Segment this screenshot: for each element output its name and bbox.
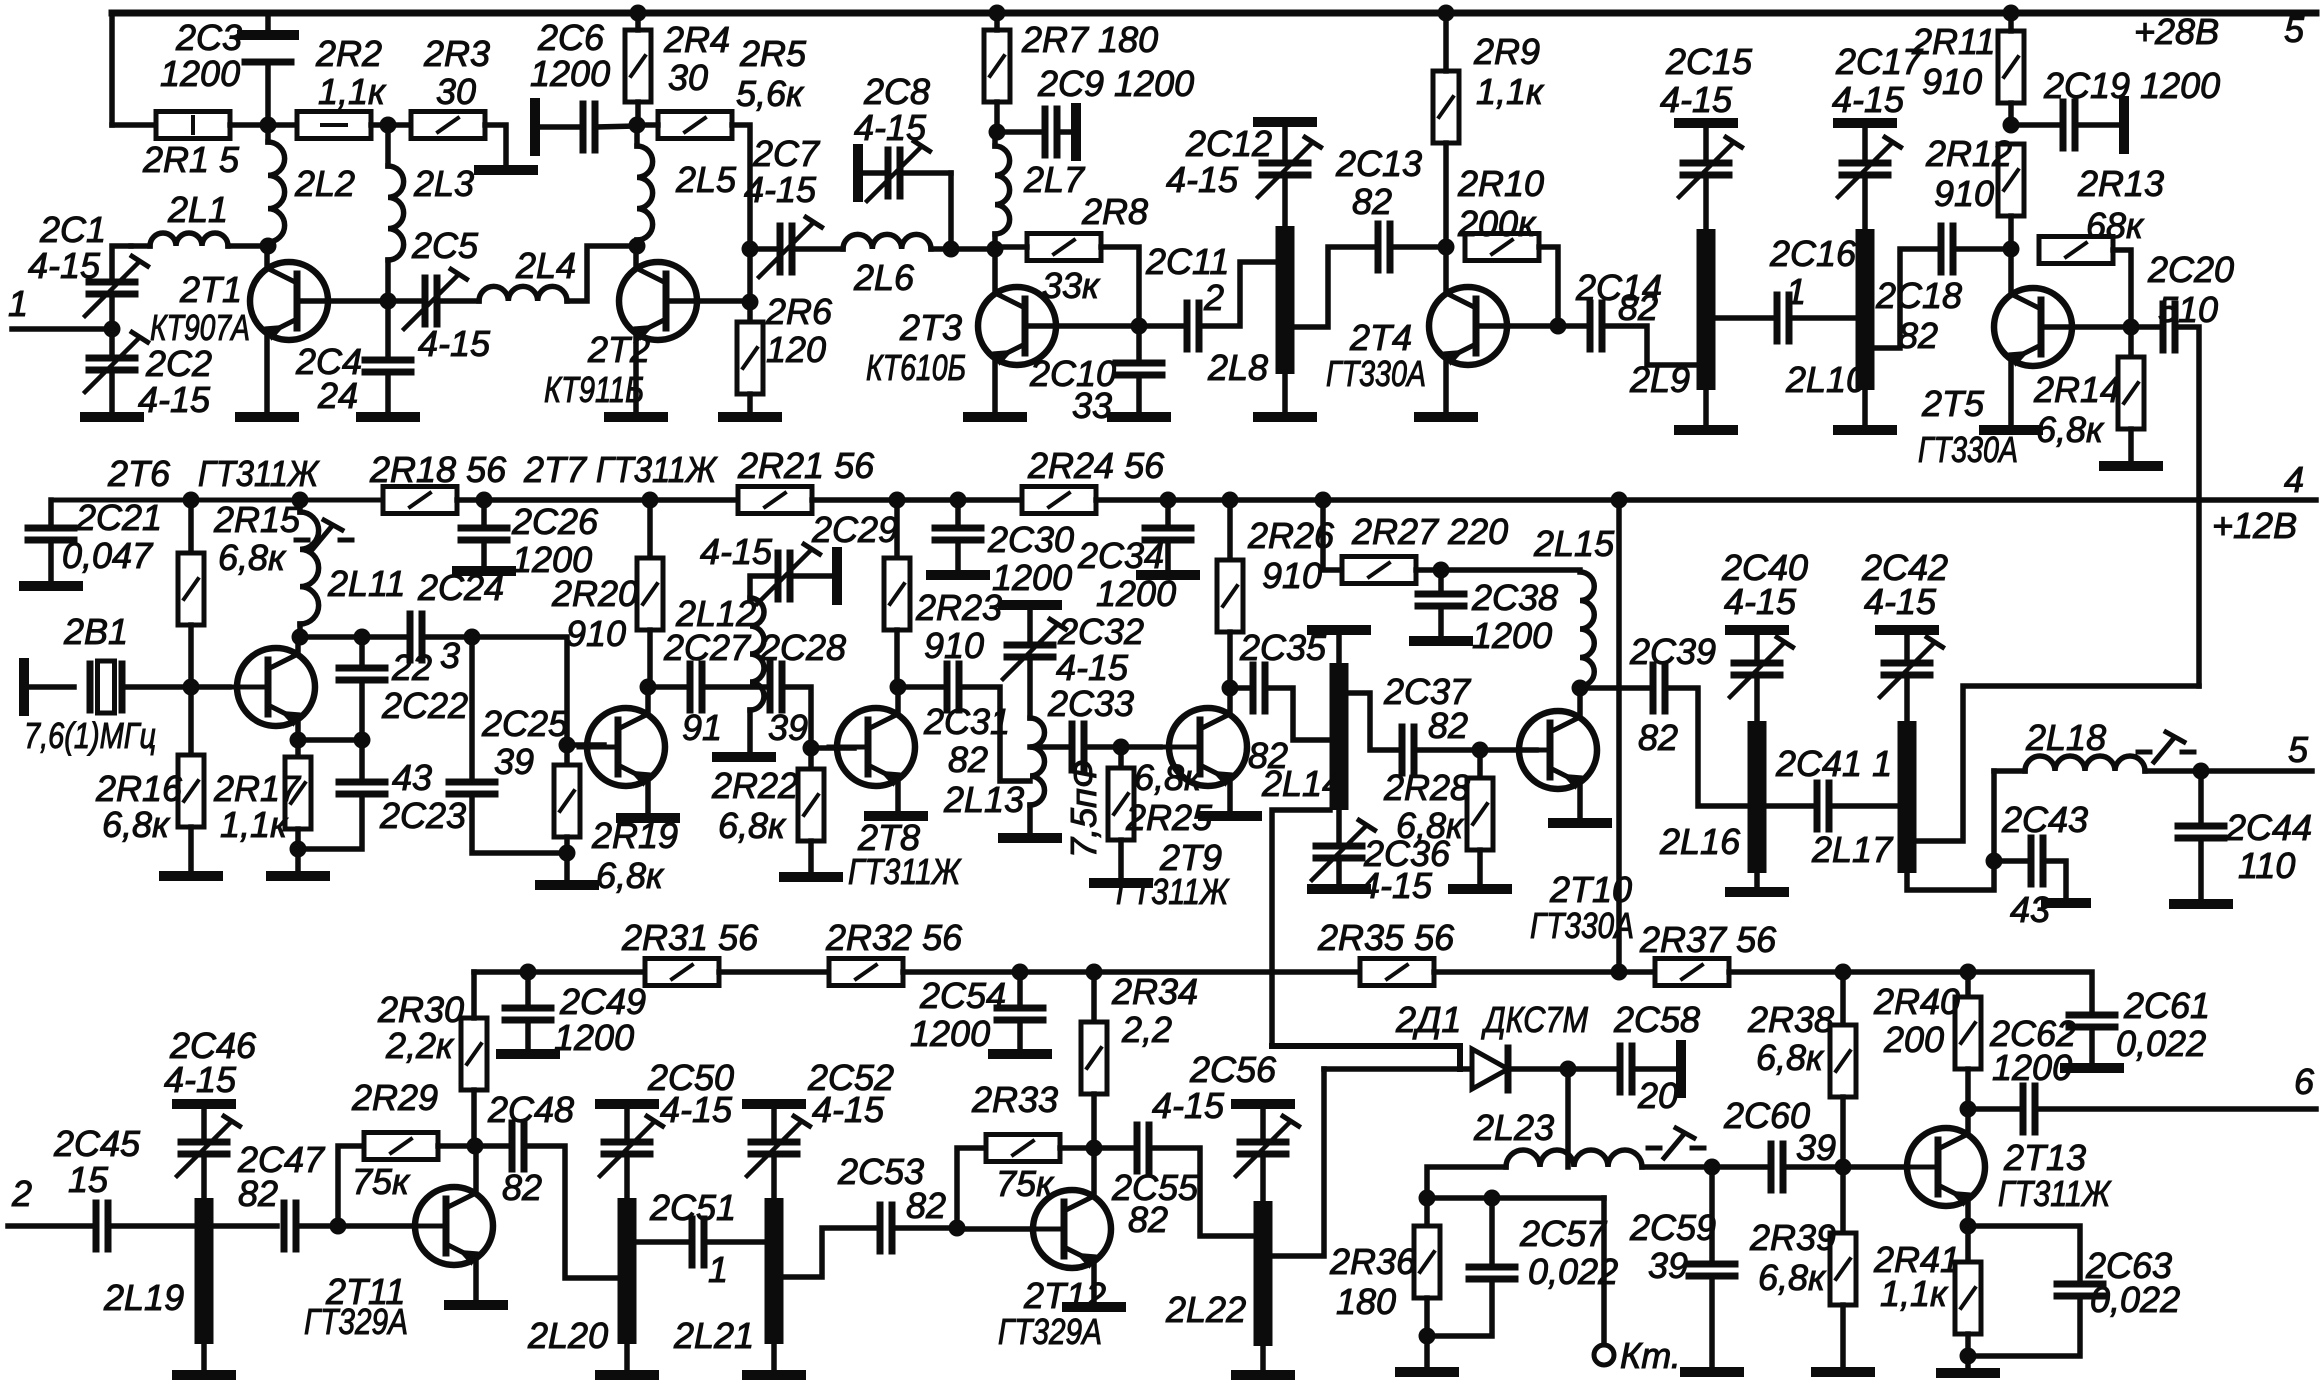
label 2C39 bbox=[1629, 631, 1716, 672]
svg-text:ГТ311Ж: ГТ311Ж bbox=[198, 453, 320, 494]
wire bbox=[1427, 1195, 1604, 1201]
wire bbox=[1965, 972, 1971, 997]
junction bbox=[742, 294, 759, 311]
svg-text:2C26: 2C26 bbox=[511, 501, 599, 542]
terminal bbox=[832, 552, 842, 600]
wire bbox=[862, 170, 888, 176]
wire 2L8 tap to 2C13 bbox=[1294, 247, 1372, 327]
value label 2C40 4-15 bbox=[1724, 581, 1797, 622]
wire bbox=[1282, 127, 1288, 157]
svg-text:39: 39 bbox=[1648, 1245, 1688, 1286]
value label 2C18 82 bbox=[1898, 315, 1938, 356]
inductor 2L3 bbox=[388, 166, 404, 260]
value label 2C4 24 bbox=[317, 375, 358, 416]
wire bbox=[469, 637, 475, 779]
label 2C50 bbox=[647, 1057, 734, 1098]
wire 2T12 emitter bbox=[1091, 1262, 1097, 1302]
wire 2L14 to mixer bbox=[1272, 810, 1330, 1046]
ground bbox=[1312, 884, 1366, 894]
junction bbox=[1560, 1061, 1577, 1078]
label 2C22 bbox=[381, 685, 468, 726]
junction bbox=[1086, 1140, 1103, 1157]
svg-text:2C43: 2C43 bbox=[2001, 799, 2088, 840]
wire bbox=[438, 1143, 475, 1149]
value label 2C59 39 bbox=[1648, 1245, 1688, 1286]
wire 2T7 base bbox=[567, 742, 604, 748]
svg-text:200к: 200к bbox=[1457, 203, 1537, 244]
wire bbox=[1165, 540, 1171, 570]
wire bbox=[362, 634, 404, 640]
transistor 2T7 bbox=[579, 708, 665, 787]
wire 2T2 collector bbox=[633, 246, 639, 268]
wire bbox=[1709, 1276, 1715, 1367]
wire +28V rail bbox=[112, 10, 2316, 17]
svg-text:2L13: 2L13 bbox=[943, 779, 1024, 820]
inductor 2L8 bbox=[1276, 226, 1295, 374]
wire bbox=[1336, 635, 1342, 663]
ground bbox=[1141, 570, 1195, 580]
trimmer capacitor 2C7 bbox=[759, 217, 822, 277]
wire 2T2 emitter bbox=[633, 334, 639, 412]
svg-text:4-15: 4-15 bbox=[1724, 581, 1797, 622]
terminal bbox=[19, 663, 29, 711]
resistor 2R22 bbox=[798, 769, 824, 841]
svg-text:2L11: 2L11 bbox=[327, 563, 405, 604]
svg-text:2C18: 2C18 bbox=[1875, 275, 1962, 316]
crystal 2B1 bbox=[90, 661, 122, 713]
svg-text:75к: 75к bbox=[352, 1161, 411, 1202]
svg-text:1200: 1200 bbox=[910, 1013, 990, 1054]
resistor 2R4 bbox=[625, 30, 651, 102]
trimmer capacitor 2C46 bbox=[177, 1116, 240, 1176]
label 2C60 bbox=[1723, 1095, 1810, 1136]
ground bbox=[1941, 1368, 1995, 1378]
svg-text:6,8к: 6,8к bbox=[102, 804, 171, 845]
wire 2C63 top bbox=[1968, 1226, 2080, 1281]
junction bbox=[1611, 964, 1628, 981]
capacitor 2C55 bbox=[1137, 1125, 1149, 1171]
ground bbox=[449, 1300, 503, 1310]
label 2T2 bbox=[587, 329, 650, 370]
svg-text:82: 82 bbox=[948, 739, 988, 780]
ground bbox=[1679, 425, 1733, 435]
junction bbox=[642, 492, 659, 509]
wire bbox=[1904, 635, 1910, 657]
ground bbox=[1553, 818, 1607, 828]
label 2C63 bbox=[2085, 1245, 2172, 1286]
ground bbox=[1067, 1302, 1121, 1312]
label 2C31 bbox=[923, 701, 1010, 742]
wire 2T8 collector bbox=[895, 687, 901, 714]
svg-text:2L21: 2L21 bbox=[673, 1315, 754, 1356]
svg-text:2C57: 2C57 bbox=[1519, 1213, 1608, 1254]
wire bbox=[1754, 635, 1760, 657]
svg-text:0,022: 0,022 bbox=[2116, 1023, 2206, 1064]
svg-text:КТ907А: КТ907А bbox=[150, 307, 250, 348]
value label 2C15 4-15 bbox=[1660, 79, 1733, 120]
wire bbox=[201, 1109, 207, 1137]
wire bbox=[108, 1223, 195, 1229]
wire bbox=[109, 370, 115, 412]
wire bbox=[1094, 1145, 1131, 1151]
svg-text:2C56: 2C56 bbox=[1189, 1049, 1277, 1090]
wire diode anode bbox=[1324, 1066, 1472, 1072]
wire bbox=[228, 243, 268, 249]
svg-text:2C16: 2C16 bbox=[1769, 233, 1857, 274]
label +12V bbox=[2212, 505, 2297, 546]
svg-text:4-15: 4-15 bbox=[1152, 1085, 1225, 1126]
label 2R34 bbox=[1111, 971, 1198, 1012]
label net 5 out bbox=[2288, 729, 2309, 770]
junction bbox=[629, 117, 646, 134]
svg-text:ГТ329А: ГТ329А bbox=[304, 1301, 408, 1342]
svg-text:4-15: 4-15 bbox=[812, 1089, 885, 1130]
svg-text:4-15: 4-15 bbox=[138, 379, 211, 420]
label 2C23 bbox=[379, 795, 466, 836]
svg-text:6,8к: 6,8к bbox=[1756, 1037, 1825, 1078]
wire bbox=[124, 684, 191, 690]
capacitor 2C61 bbox=[2069, 1015, 2115, 1027]
junction bbox=[1433, 562, 1450, 579]
ground bbox=[1414, 636, 1468, 646]
type label 2T1 KT907A bbox=[150, 307, 250, 348]
transistor 2T5 bbox=[1994, 288, 2080, 367]
svg-text:1: 1 bbox=[8, 283, 28, 324]
wire 2T9 emitter bbox=[1227, 780, 1233, 812]
wire bbox=[1443, 13, 1449, 71]
inductor 2L22 bbox=[1254, 1201, 1273, 1346]
label 2C28 bbox=[759, 627, 846, 668]
ground bbox=[1816, 1367, 1870, 1377]
ground bbox=[1203, 811, 1257, 821]
svg-text:2L4: 2L4 bbox=[515, 245, 576, 286]
junction bbox=[989, 5, 1006, 22]
junction bbox=[380, 293, 397, 310]
wire bbox=[992, 132, 998, 146]
wire 2L4 to 2T2 collector bbox=[567, 246, 637, 301]
label 2R19 bbox=[591, 815, 678, 856]
junction bbox=[1611, 492, 1628, 509]
label 2R12 bbox=[1925, 133, 2012, 174]
capacitor 2C43 bbox=[2031, 838, 2043, 884]
value label 2C5 4-15 bbox=[418, 323, 491, 364]
wire bbox=[1862, 128, 1868, 157]
label 2T3 bbox=[899, 307, 962, 348]
resistor 2R24 bbox=[1022, 487, 1096, 514]
wire bbox=[747, 394, 753, 412]
svg-text:43: 43 bbox=[392, 757, 432, 798]
svg-text:82: 82 bbox=[1898, 315, 1938, 356]
label 2L6 bbox=[853, 257, 915, 298]
svg-text:2R35 56: 2R35 56 bbox=[1317, 917, 1455, 958]
transistor 2T13 bbox=[1899, 1128, 1985, 1207]
capacitor 2C49 bbox=[505, 1008, 551, 1020]
junction bbox=[803, 740, 820, 757]
junction bbox=[290, 732, 307, 749]
svg-text:5,6к: 5,6к bbox=[736, 73, 805, 114]
capacitor 2C31 bbox=[947, 664, 959, 710]
inductor 2L14 bbox=[1330, 663, 1349, 810]
junction bbox=[260, 238, 277, 255]
wire bbox=[1783, 1164, 1843, 1170]
junction bbox=[1086, 964, 1103, 981]
ground bbox=[1685, 1367, 1739, 1377]
label 2C55 bbox=[1111, 1167, 1199, 1208]
wire 2C39 to 2L16 bbox=[1665, 688, 1749, 806]
svg-text:120: 120 bbox=[766, 329, 826, 370]
svg-text:30: 30 bbox=[436, 71, 476, 112]
svg-text:4-15: 4-15 bbox=[1056, 647, 1129, 688]
wire 2T12 collector bbox=[1091, 1148, 1097, 1196]
label 2R7 180 bbox=[1021, 19, 1158, 60]
label 2L23 bbox=[1473, 1107, 1554, 1148]
transistor 2T11 bbox=[407, 1187, 493, 1266]
ground bbox=[2046, 898, 2086, 908]
label 2C58 bbox=[1613, 999, 1700, 1040]
value label 2C46 4-15 bbox=[164, 1059, 237, 1100]
trimmer capacitor 2C1 bbox=[85, 256, 148, 316]
label 2C36 bbox=[1363, 833, 1451, 874]
svg-text:4-15: 4-15 bbox=[418, 323, 491, 364]
capacitor 2C11 bbox=[1187, 303, 1199, 349]
junction bbox=[629, 238, 646, 255]
wire bbox=[385, 372, 391, 412]
svg-text:2L7: 2L7 bbox=[1023, 159, 1086, 200]
value label 2C7 4-15 bbox=[744, 169, 817, 210]
svg-text:2L16: 2L16 bbox=[1659, 821, 1741, 862]
value label 2C43 43 bbox=[2010, 889, 2050, 930]
capacitor 2C14 bbox=[1590, 303, 1602, 349]
inductor 2L23 bbox=[1506, 1150, 1642, 1167]
wire bbox=[298, 737, 362, 743]
label 2L8 bbox=[1207, 347, 1268, 388]
label 2L19 bbox=[103, 1277, 184, 1318]
value label 2C47 82 bbox=[238, 1173, 278, 1214]
wire 2T7 collector bbox=[645, 687, 651, 714]
label 2R1 5 bbox=[142, 139, 240, 180]
capacitor 2C39 bbox=[1653, 665, 1665, 711]
wire bbox=[1565, 1069, 1571, 1167]
wire bbox=[2043, 861, 2066, 898]
terminal bbox=[177, 1099, 231, 1109]
ground bbox=[164, 871, 218, 881]
wire bbox=[898, 684, 941, 690]
svg-text:2R34: 2R34 bbox=[1111, 971, 1198, 1012]
wire bbox=[1632, 1066, 1677, 1072]
svg-text:2R24 56: 2R24 56 bbox=[1027, 445, 1165, 486]
svg-text:2R1 5: 2R1 5 bbox=[142, 139, 240, 180]
junction bbox=[476, 492, 493, 509]
wire bbox=[481, 500, 487, 525]
wire bbox=[894, 500, 900, 558]
capacitor 2C28 bbox=[770, 664, 782, 710]
wire bbox=[297, 500, 303, 512]
wire 2R8 to base node bbox=[1101, 247, 1139, 320]
junction bbox=[742, 241, 759, 258]
label net 5 bbox=[2284, 9, 2305, 50]
resistor 2R26 bbox=[1217, 560, 1243, 632]
capacitor 2C19 bbox=[2063, 102, 2075, 148]
wire bbox=[948, 173, 954, 249]
capacitor 2C23 bbox=[339, 782, 385, 794]
svg-text:2,2к: 2,2к bbox=[385, 1025, 455, 1066]
svg-text:2L19: 2L19 bbox=[103, 1277, 184, 1318]
wire 2C3 top bbox=[265, 13, 271, 31]
label 2T4 bbox=[1349, 317, 1412, 358]
label 2C19 1200 bbox=[2043, 65, 2220, 106]
terminal bbox=[853, 149, 863, 197]
svg-text:1200: 1200 bbox=[554, 1017, 634, 1058]
wire 2L22 tap to diode bbox=[1272, 1069, 1324, 1256]
wire bbox=[1965, 1226, 1971, 1262]
wire 2T1 emitter bbox=[264, 334, 270, 412]
wire bbox=[1840, 1097, 1846, 1167]
svg-text:2T1: 2T1 bbox=[179, 269, 242, 310]
svg-text:2C59: 2C59 bbox=[1629, 1207, 1716, 1248]
value label 2C1 4-15 bbox=[28, 245, 101, 286]
label 2R37 56 bbox=[1639, 919, 1777, 960]
svg-text:ГТ311Ж: ГТ311Ж bbox=[1998, 1173, 2112, 1214]
junction bbox=[1131, 318, 1148, 335]
wire node A bbox=[112, 122, 156, 128]
wire bbox=[359, 680, 365, 740]
label 2L20 bbox=[527, 1315, 608, 1356]
wire 2T1 collector bbox=[264, 246, 270, 268]
wire bbox=[808, 748, 814, 769]
wire 2L9 tap bbox=[1715, 315, 1771, 321]
label 2R11 bbox=[1911, 21, 1995, 62]
svg-text:82: 82 bbox=[238, 1173, 278, 1214]
svg-text:2C61: 2C61 bbox=[2123, 985, 2210, 1026]
wire bbox=[201, 1154, 207, 1198]
resistor 2R38 bbox=[1830, 1025, 1856, 1097]
wire bbox=[265, 242, 271, 246]
svg-text:2C7: 2C7 bbox=[752, 133, 821, 174]
wire bbox=[1965, 1069, 1971, 1109]
terminal bbox=[1880, 625, 1934, 635]
wire bbox=[1091, 1094, 1097, 1148]
ground bbox=[717, 752, 771, 762]
inductor 2L19 bbox=[195, 1198, 214, 1344]
junction bbox=[630, 5, 647, 22]
svg-text:2L3: 2L3 bbox=[413, 163, 474, 204]
junction bbox=[890, 679, 907, 696]
transistor 2T8 bbox=[829, 708, 915, 787]
wire bbox=[385, 125, 391, 166]
resistor 2R36 bbox=[1414, 1226, 1440, 1298]
svg-text:0,047: 0,047 bbox=[62, 535, 154, 576]
value label 2C55 82 bbox=[1128, 1199, 1168, 1240]
ground bbox=[1094, 878, 1148, 888]
svg-text:910: 910 bbox=[1934, 173, 1994, 214]
wire bbox=[1568, 1066, 1614, 1072]
wire bbox=[472, 794, 565, 853]
svg-text:2C13: 2C13 bbox=[1335, 143, 1422, 184]
value label 2C58 20 bbox=[1637, 1075, 1678, 1116]
ground bbox=[1984, 425, 2038, 435]
resistor 2R16 bbox=[178, 755, 204, 827]
wire input 1 bbox=[12, 326, 112, 332]
svg-text:2T5: 2T5 bbox=[1921, 383, 1985, 424]
svg-text:6,8к: 6,8к bbox=[1396, 805, 1465, 846]
label net 1 bbox=[8, 283, 28, 324]
wire bbox=[475, 1143, 506, 1149]
svg-text:4-15: 4-15 bbox=[1660, 79, 1733, 120]
wire bbox=[230, 122, 297, 128]
svg-text:20: 20 bbox=[1637, 1075, 1678, 1116]
label 2L14 bbox=[1261, 763, 1342, 804]
capacitor 2C30 bbox=[935, 528, 981, 540]
wire bbox=[298, 634, 362, 640]
label 2C15 bbox=[1665, 41, 1753, 82]
wire bbox=[1840, 1305, 1846, 1367]
label 2R8 bbox=[1081, 191, 1148, 232]
label 2R2 bbox=[315, 33, 382, 74]
capacitor 2C21 bbox=[28, 528, 74, 540]
value label 2C60 39 bbox=[1796, 1127, 1836, 1168]
junction bbox=[1315, 492, 1332, 509]
label 2C34 bbox=[1077, 535, 1164, 576]
wire bbox=[702, 684, 764, 690]
trimmer capacitor 2C17 bbox=[1838, 137, 1901, 197]
label 2R14 bbox=[2033, 369, 2120, 410]
svg-text:2L10: 2L10 bbox=[1785, 359, 1866, 400]
capacitor 2C22 bbox=[339, 668, 385, 680]
svg-text:82: 82 bbox=[502, 1167, 542, 1208]
label 2R17 bbox=[213, 768, 302, 809]
junction bbox=[559, 737, 576, 754]
label 2L9 bbox=[1629, 359, 1690, 400]
wire rail left drop bbox=[109, 13, 115, 125]
value label 2C42 4-15 bbox=[1864, 581, 1937, 622]
svg-text:2C2: 2C2 bbox=[145, 343, 212, 384]
value label 2C63 0,022 bbox=[2090, 1279, 2180, 1320]
capacitor 2C57 bbox=[1469, 1267, 1515, 1279]
test point Kt bbox=[1594, 1345, 1614, 1365]
resistor 2R23 bbox=[884, 558, 910, 630]
label 2C3 bbox=[175, 17, 242, 58]
terminal bbox=[600, 1099, 654, 1109]
junction bbox=[1572, 680, 1589, 697]
wire 2R3 to ground bbox=[485, 125, 506, 166]
type label 2T5 GT330A bbox=[1918, 429, 2018, 470]
junction bbox=[2003, 5, 2020, 22]
wire bias rail bbox=[719, 969, 829, 975]
label 2R20 bbox=[551, 573, 638, 614]
wire bbox=[338, 1146, 364, 1226]
junction bbox=[1960, 1348, 1977, 1365]
svg-text:4-15: 4-15 bbox=[1832, 79, 1905, 120]
wire bbox=[2128, 327, 2134, 357]
wire bbox=[750, 246, 776, 252]
svg-text:1200: 1200 bbox=[1096, 573, 1176, 614]
svg-text:2C45: 2C45 bbox=[53, 1123, 141, 1164]
ground bbox=[479, 165, 533, 175]
svg-text:ГТ330А: ГТ330А bbox=[1918, 429, 2018, 470]
value label 2R19 6,8k bbox=[596, 855, 665, 896]
svg-text:110: 110 bbox=[2238, 845, 2295, 886]
resistor 2R35 bbox=[1360, 959, 1434, 986]
wire 2T4 base bbox=[1482, 323, 1558, 329]
wire +12V rail bbox=[812, 497, 1022, 503]
wire 2C63 bottom bbox=[1968, 1296, 2080, 1356]
wire bbox=[131, 243, 150, 249]
wire 2L23 right bbox=[1642, 1164, 1712, 1170]
junction bbox=[183, 492, 200, 509]
wire 2T10 base bbox=[1480, 747, 1536, 753]
value label 2R23 910 bbox=[924, 625, 984, 666]
wire bbox=[995, 244, 1027, 250]
